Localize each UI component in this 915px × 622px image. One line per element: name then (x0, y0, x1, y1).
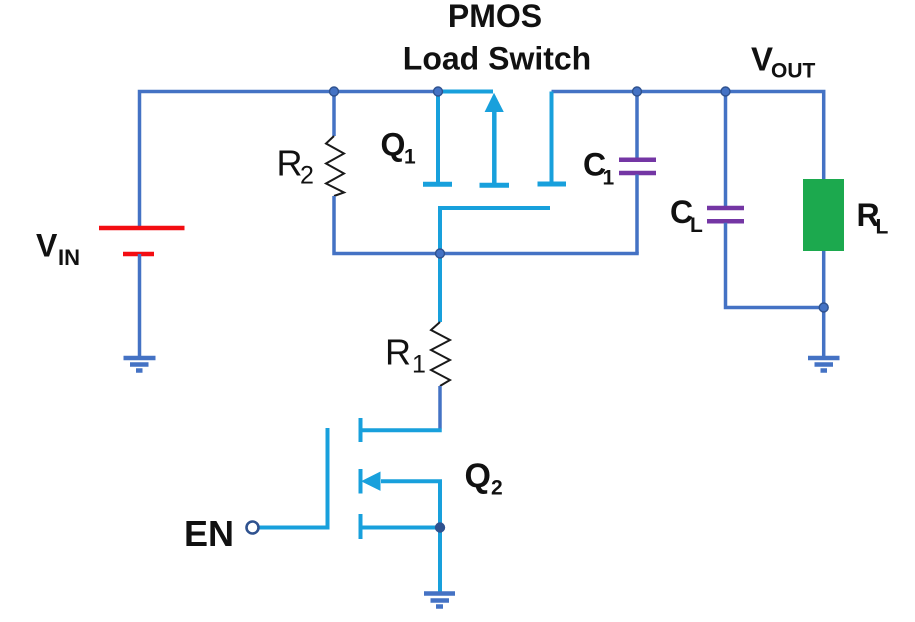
node dot (RL bottom) (819, 303, 828, 312)
svg-text:1: 1 (412, 351, 426, 379)
svg-text:R: R (385, 332, 411, 373)
node dot (C1 top) (633, 87, 642, 96)
node dot (R2 top) (330, 87, 339, 96)
svg-text:Q: Q (381, 127, 406, 163)
wire top rail left (VIN to Q1 source) (140, 92, 439, 227)
battery V_IN (99, 228, 185, 254)
svg-text:OUT: OUT (771, 60, 816, 83)
ground (RL) (808, 358, 840, 371)
resistor RL (803, 179, 844, 357)
resistor R1 (431, 322, 450, 386)
svg-text:EN: EN (184, 513, 234, 554)
node dot (VOUT) (721, 87, 730, 96)
resistor R2 (326, 136, 344, 196)
transistor Q2 (NMOS) (328, 418, 442, 539)
svg-text:Load Switch: Load Switch (403, 41, 591, 77)
svg-text:IN: IN (58, 245, 80, 270)
terminal circle EN (247, 522, 259, 534)
ground (Q2) (424, 594, 455, 607)
svg-text:2: 2 (300, 162, 314, 190)
svg-text:V: V (36, 228, 58, 264)
svg-text:L: L (876, 216, 889, 239)
title PMOS Load Switch (403, 0, 591, 77)
capacitor CL (707, 92, 824, 308)
node dot (Q2 source node) (436, 523, 445, 532)
node dot (gate node) (436, 249, 445, 258)
svg-text:1: 1 (404, 146, 416, 169)
wire Q2 source to ground (438, 528, 442, 593)
svg-text:2: 2 (491, 477, 503, 500)
wire EN to gate (260, 526, 330, 530)
svg-text:V: V (751, 41, 773, 78)
svg-text:PMOS: PMOS (448, 0, 542, 34)
wire R2 upper lead (332, 92, 336, 137)
svg-text:Q: Q (465, 457, 491, 495)
wire R1 lower lead (438, 386, 442, 429)
svg-text:1: 1 (603, 167, 615, 190)
transistor Q1 (PMOS) (423, 92, 566, 254)
wire top rail right (Q1 drain to RL) (552, 92, 824, 180)
wire R2 lower lead + bottom rail (334, 196, 639, 254)
wire Q1 gate node to R1 (438, 254, 442, 323)
capacitor C1 (619, 92, 656, 254)
ground (VIN) (124, 358, 156, 371)
svg-text:R: R (277, 143, 303, 184)
svg-text:L: L (690, 214, 703, 237)
node dot (Q1 source) (434, 87, 443, 96)
wire VIN battery to ground (138, 254, 142, 357)
